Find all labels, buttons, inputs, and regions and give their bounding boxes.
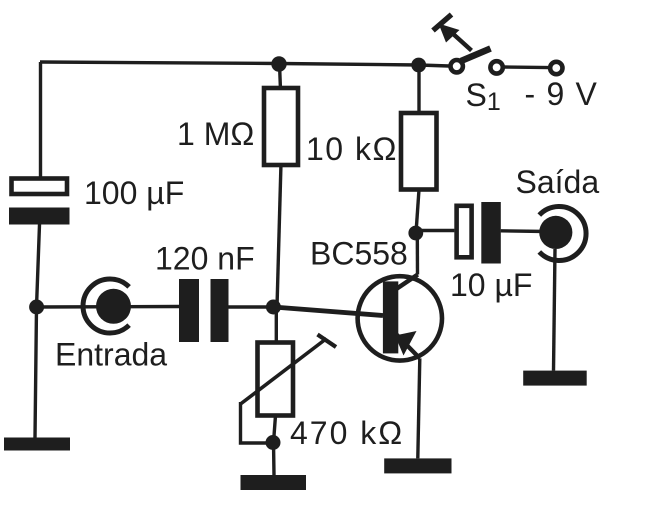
switch S1 lever	[461, 49, 491, 62]
wire bus to R1	[280, 64, 281, 90]
ground trimmer	[241, 475, 307, 490]
capacitor C2 120nF right plate	[211, 279, 229, 342]
svg-text:10 kΩ: 10 kΩ	[306, 131, 398, 167]
capacitor C3 10uF left plate	[457, 206, 472, 257]
transistor Q1 emitter line	[396, 334, 420, 358]
capacitor C1 100uF bottom plate	[9, 208, 70, 225]
trimmer arrow T-bar	[318, 335, 337, 348]
node bus junction R3	[411, 58, 426, 73]
node top junction R1	[271, 56, 286, 71]
wire R3 bottom to collector node	[416, 190, 419, 234]
svg-text:Saída: Saída	[516, 164, 600, 200]
wire collector node down	[416, 233, 420, 275]
svg-text:1 MΩ: 1 MΩ	[177, 116, 254, 152]
node input junction	[29, 300, 44, 315]
svg-text:100 µF: 100 µF	[84, 175, 184, 211]
wire bus to R3	[417, 65, 420, 115]
wire base node to trimmer	[275, 307, 278, 344]
node trimmer bottom junction	[266, 435, 281, 450]
wire input horizontal	[37, 305, 179, 309]
jack J2 Saida arc	[539, 207, 586, 261]
arrow head at switch	[439, 24, 460, 43]
transistor Q1 emitter arrowhead	[395, 331, 417, 356]
svg-text:S1: S1	[466, 77, 501, 116]
wire trimmer wiper to bottom node	[241, 402, 274, 443]
wire R1 bottom to base node	[277, 163, 281, 307]
wire left vertical upper	[39, 62, 42, 177]
resistor R1 1M	[264, 88, 298, 165]
arrow shaft at switch	[451, 32, 472, 51]
wire emitter to ground	[418, 358, 420, 458]
jack J1 Entrada arc	[83, 279, 129, 333]
svg-text:120 nF: 120 nF	[155, 241, 255, 277]
jack J1 Entrada center dot	[96, 289, 131, 324]
trimmer arrow diagonal	[241, 339, 327, 405]
transistor Q1 base bar	[383, 281, 398, 353]
svg-text:Entrada: Entrada	[55, 337, 167, 373]
svg-text:BC558: BC558	[310, 236, 408, 272]
wire C2 to base node	[229, 305, 274, 308]
ground left	[4, 438, 70, 451]
node collector junction	[408, 226, 423, 241]
wire collector node to C3	[416, 229, 454, 232]
wire jack J2 to ground	[554, 249, 556, 371]
wire collector diagonal	[396, 275, 418, 290]
resistor R2 470k trimmer body	[258, 343, 294, 416]
ground emitter	[384, 458, 451, 473]
wire base node to transistor base	[273, 307, 383, 316]
capacitor C3 10uF right plate	[481, 202, 501, 264]
svg-text:10 µF: 10 µF	[450, 267, 532, 303]
wire left vertical lower	[35, 225, 40, 438]
wire top supply bus	[40, 62, 449, 66]
switch S1 middle contact	[490, 61, 502, 73]
arrow T-bar at switch	[433, 15, 452, 31]
switch S1 pole contact	[451, 60, 463, 72]
resistor R3 10k	[401, 113, 437, 190]
ground output	[523, 371, 587, 386]
wire R2 bottom to ground	[274, 416, 276, 476]
switch S1 battery contact	[550, 62, 562, 74]
jack J2 Saida center dot	[539, 216, 572, 249]
wire between switch contacts	[503, 65, 550, 69]
transistor Q1 circle	[358, 276, 442, 360]
svg-text:470 kΩ: 470 kΩ	[290, 415, 404, 451]
capacitor C2 120nF left plate	[179, 279, 199, 342]
node base junction	[266, 300, 281, 315]
capacitor C1 100uF top plate	[12, 179, 68, 195]
wire C3 to jack J2	[501, 229, 546, 233]
svg-text:- 9 V: - 9 V	[525, 76, 599, 112]
